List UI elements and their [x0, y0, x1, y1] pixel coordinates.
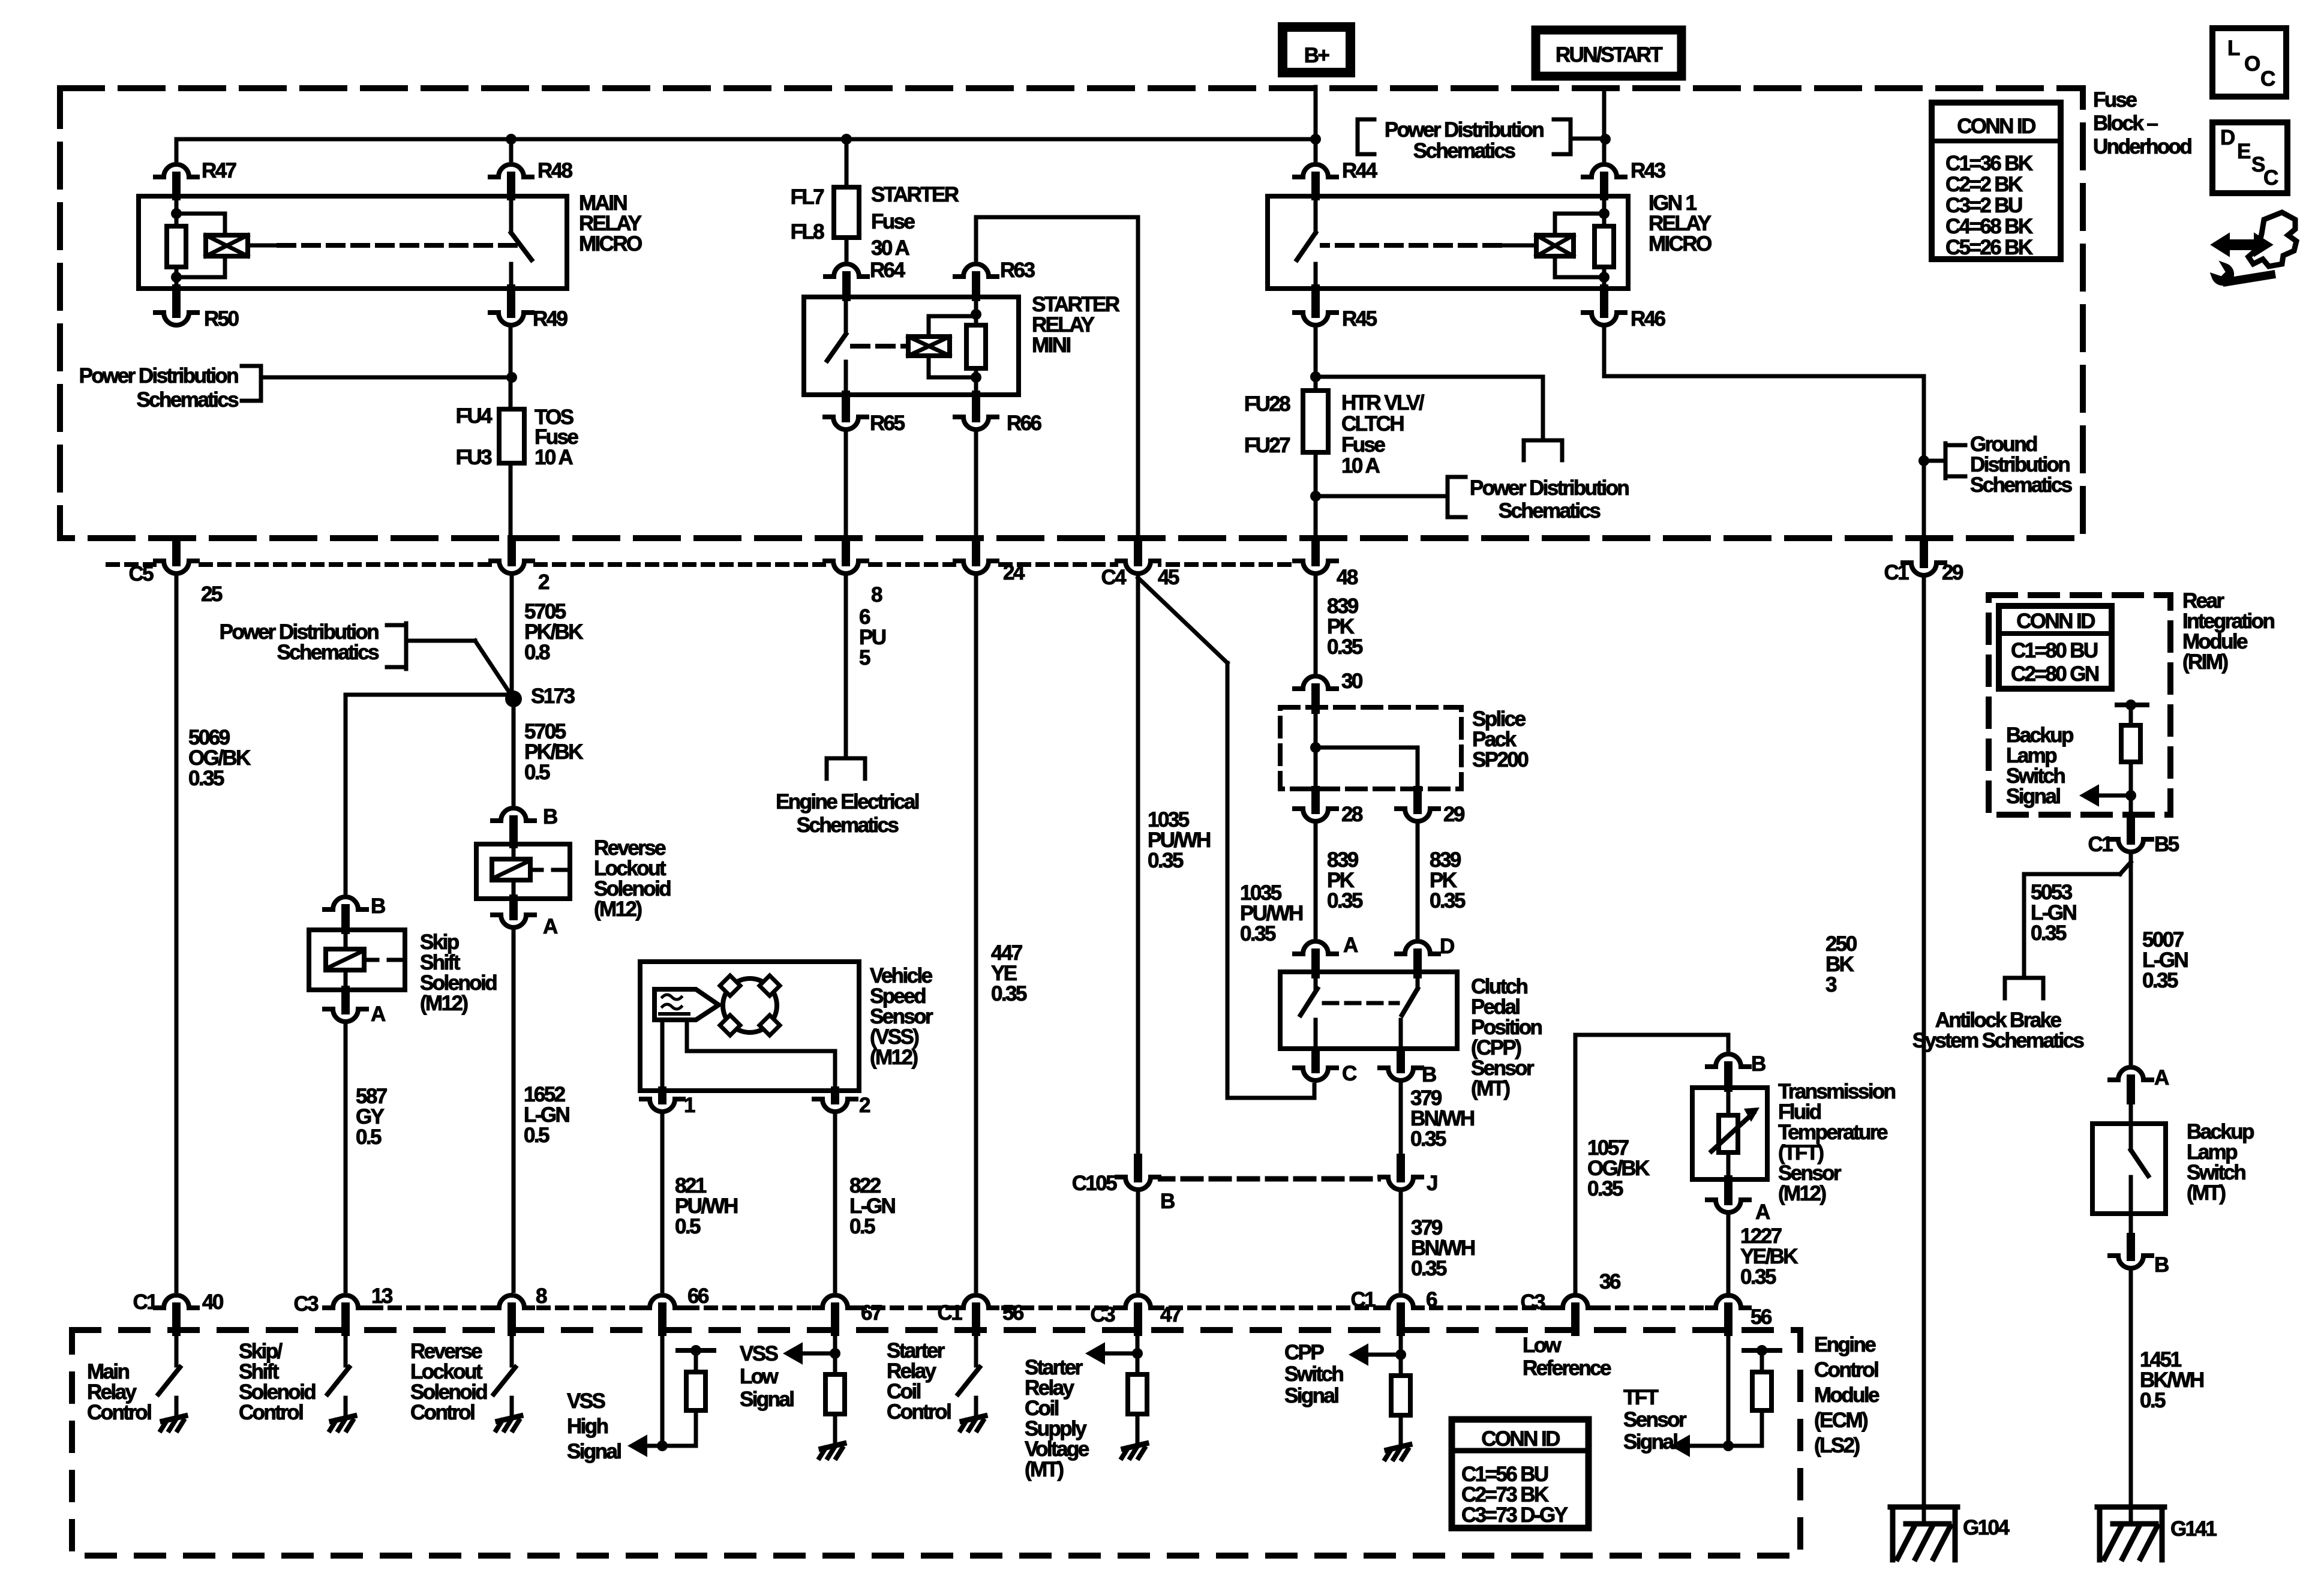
svg-text:6: 6	[1426, 1288, 1437, 1311]
svg-text:0.5: 0.5	[849, 1215, 875, 1238]
svg-text:Schematics: Schematics	[1970, 473, 2073, 497]
svg-text:40: 40	[202, 1290, 224, 1314]
svg-text:48: 48	[1337, 566, 1358, 589]
svg-text:CLTCH: CLTCH	[1341, 412, 1403, 436]
svg-text:0.35: 0.35	[2031, 921, 2067, 945]
svg-text:10 A: 10 A	[535, 446, 574, 469]
svg-text:67: 67	[861, 1301, 882, 1325]
svg-text:C1: C1	[133, 1290, 158, 1314]
svg-text:66: 66	[687, 1284, 709, 1308]
svg-text:8: 8	[536, 1284, 547, 1308]
svg-text:Power Distribution: Power Distribution	[1470, 476, 1629, 500]
svg-text:R45: R45	[1342, 307, 1377, 331]
svg-text:0.35: 0.35	[1430, 889, 1466, 912]
svg-text:R47: R47	[202, 159, 236, 182]
svg-text:R63: R63	[1000, 259, 1035, 282]
svg-text:FU3: FU3	[456, 446, 492, 469]
svg-text:Schematics: Schematics	[136, 388, 239, 412]
svg-text:CPP: CPP	[1284, 1341, 1324, 1364]
svg-text:13: 13	[371, 1284, 393, 1308]
svg-text:Schematics: Schematics	[797, 813, 899, 837]
svg-text:Power Distribution: Power Distribution	[1385, 118, 1544, 142]
svg-text:Control: Control	[887, 1400, 951, 1424]
svg-text:(RIM): (RIM)	[2182, 650, 2227, 674]
svg-text:56: 56	[1002, 1301, 1024, 1325]
svg-text:Signal: Signal	[1284, 1384, 1338, 1407]
svg-text:CONN ID: CONN ID	[1481, 1427, 1560, 1451]
svg-text:TFT: TFT	[1623, 1386, 1659, 1409]
svg-text:R46: R46	[1631, 307, 1666, 331]
svg-text:(M12): (M12)	[420, 992, 467, 1015]
svg-text:30: 30	[1341, 670, 1363, 693]
svg-text:FL7: FL7	[791, 185, 824, 209]
svg-text:R48: R48	[538, 159, 573, 182]
svg-text:SP200: SP200	[1472, 748, 1529, 772]
svg-text:(MT): (MT)	[1025, 1458, 1063, 1481]
svg-text:(ECM): (ECM)	[1814, 1409, 1867, 1432]
svg-text:Control: Control	[239, 1401, 303, 1424]
svg-text:Engine Electrical: Engine Electrical	[776, 790, 919, 813]
svg-text:D: D	[1440, 935, 1454, 958]
svg-text:0.35: 0.35	[1410, 1127, 1446, 1151]
svg-text:Control: Control	[1814, 1358, 1878, 1382]
svg-text:Switch: Switch	[1284, 1362, 1343, 1386]
svg-text:47: 47	[1160, 1303, 1181, 1326]
svg-text:0.35: 0.35	[991, 982, 1027, 1005]
svg-text:10 A: 10 A	[1341, 454, 1380, 478]
svg-text:(LS2): (LS2)	[1814, 1434, 1859, 1457]
svg-text:Fuse: Fuse	[2093, 88, 2137, 112]
svg-text:0.35: 0.35	[188, 767, 224, 790]
svg-text:C3: C3	[293, 1292, 319, 1316]
svg-text:(M12): (M12)	[870, 1046, 917, 1069]
svg-text:0.35: 0.35	[1240, 922, 1276, 945]
svg-text:FU4: FU4	[456, 404, 493, 428]
svg-text:Schematics: Schematics	[277, 641, 379, 664]
svg-text:C3=73 D-GY: C3=73 D-GY	[1461, 1503, 1568, 1527]
svg-text:STARTER: STARTER	[871, 183, 959, 206]
svg-text:C5: C5	[128, 562, 154, 586]
svg-text:Signal: Signal	[1623, 1430, 1677, 1454]
svg-text:C1=80 BU: C1=80 BU	[2011, 639, 2098, 662]
svg-text:0.5: 0.5	[2140, 1389, 2166, 1412]
svg-text:0.35: 0.35	[1327, 889, 1363, 912]
svg-text:R44: R44	[1342, 159, 1378, 182]
svg-text:C1: C1	[2088, 833, 2113, 856]
svg-text:0.35: 0.35	[1411, 1257, 1447, 1280]
svg-text:B: B	[543, 805, 557, 828]
svg-text:C1: C1	[1884, 561, 1909, 584]
svg-text:Signal: Signal	[740, 1388, 794, 1411]
svg-text:G141: G141	[2170, 1517, 2217, 1541]
svg-text:28: 28	[1341, 803, 1363, 826]
svg-text:2: 2	[538, 571, 550, 594]
svg-text:C: C	[1342, 1062, 1357, 1085]
svg-text:(MT): (MT)	[2187, 1181, 2225, 1205]
svg-text:0.5: 0.5	[675, 1215, 701, 1238]
svg-text:S173: S173	[531, 685, 575, 708]
svg-text:36: 36	[1599, 1270, 1621, 1293]
svg-text:A: A	[543, 915, 558, 938]
svg-text:C3: C3	[1520, 1290, 1545, 1314]
svg-text:A: A	[371, 1002, 386, 1026]
svg-text:24: 24	[1003, 561, 1025, 584]
svg-text:B: B	[1422, 1063, 1436, 1086]
svg-text:VSS: VSS	[740, 1342, 777, 1365]
svg-text:CONN ID: CONN ID	[2016, 610, 2095, 633]
svg-text:Power Distribution: Power Distribution	[79, 364, 239, 388]
svg-text:S: S	[2251, 153, 2265, 176]
svg-text:3: 3	[1825, 973, 1837, 996]
svg-text:30 A: 30 A	[871, 236, 910, 260]
svg-text:0.35: 0.35	[2142, 969, 2178, 992]
svg-text:Fuse: Fuse	[1341, 433, 1385, 457]
svg-text:O: O	[2244, 52, 2260, 76]
svg-text:(MT): (MT)	[1471, 1077, 1509, 1100]
svg-text:R49: R49	[533, 307, 568, 331]
svg-text:CONN ID: CONN ID	[1957, 115, 2035, 138]
svg-text:56: 56	[1750, 1305, 1772, 1329]
svg-text:J: J	[1427, 1172, 1437, 1195]
svg-text:B: B	[1160, 1190, 1175, 1213]
svg-text:HTR VLV/: HTR VLV/	[1341, 391, 1425, 415]
svg-text:C3: C3	[1090, 1303, 1115, 1326]
svg-text:0.5: 0.5	[524, 761, 550, 784]
svg-text:G104: G104	[1963, 1516, 2010, 1539]
svg-text:29: 29	[1942, 561, 1963, 584]
svg-text:Low: Low	[740, 1365, 779, 1388]
svg-text:A: A	[2154, 1066, 2169, 1089]
svg-text:C: C	[2263, 166, 2278, 190]
svg-text:R50: R50	[204, 307, 239, 331]
svg-text:A: A	[1343, 933, 1358, 957]
svg-text:E: E	[2237, 140, 2250, 163]
svg-text:Block –: Block –	[2093, 112, 2158, 135]
svg-text:B5: B5	[2154, 833, 2179, 856]
svg-text:R66: R66	[1007, 412, 1042, 435]
svg-text:C1=36 BK: C1=36 BK	[1945, 152, 2033, 175]
svg-text:Sensor: Sensor	[1623, 1408, 1687, 1431]
svg-text:Schematics: Schematics	[1413, 139, 1516, 163]
svg-text:VSS: VSS	[567, 1389, 605, 1413]
svg-text:29: 29	[1443, 803, 1465, 826]
svg-text:FU28: FU28	[1244, 392, 1290, 416]
svg-text:FL8: FL8	[791, 220, 825, 244]
svg-text:C5=26 BK: C5=26 BK	[1945, 236, 2033, 259]
svg-text:R65: R65	[870, 412, 905, 435]
svg-text:MINI: MINI	[1032, 334, 1070, 357]
svg-text:0.35: 0.35	[1740, 1265, 1776, 1289]
svg-text:2: 2	[859, 1094, 870, 1117]
svg-text:Engine: Engine	[1814, 1333, 1876, 1356]
svg-text:C1: C1	[937, 1301, 962, 1325]
svg-text:(M12): (M12)	[1778, 1182, 1825, 1205]
svg-text:A: A	[1755, 1200, 1770, 1224]
svg-text:Control: Control	[87, 1401, 151, 1424]
svg-text:Signal: Signal	[567, 1440, 621, 1463]
svg-text:B: B	[371, 894, 385, 918]
svg-text:R64: R64	[870, 259, 906, 282]
svg-text:45: 45	[1158, 566, 1179, 589]
svg-text:C105: C105	[1072, 1172, 1117, 1195]
svg-text:C2=2 BK: C2=2 BK	[1945, 173, 2023, 196]
svg-text:25: 25	[201, 583, 223, 606]
svg-text:5: 5	[859, 646, 870, 670]
svg-text:Underhood: Underhood	[2093, 135, 2191, 158]
svg-text:R43: R43	[1631, 159, 1666, 182]
svg-text:FU27: FU27	[1244, 434, 1290, 457]
svg-text:B+: B+	[1304, 44, 1330, 67]
svg-text:0.5: 0.5	[524, 1124, 550, 1147]
svg-text:0.35: 0.35	[1148, 849, 1184, 872]
svg-text:0.35: 0.35	[1327, 635, 1363, 659]
svg-text:C4: C4	[1101, 566, 1127, 589]
svg-text:High: High	[567, 1415, 608, 1438]
svg-text:Low: Low	[1523, 1334, 1562, 1357]
svg-text:B: B	[2154, 1253, 2169, 1277]
svg-text:B: B	[1751, 1052, 1765, 1076]
svg-text:MICRO: MICRO	[1649, 232, 1712, 256]
svg-text:0.8: 0.8	[524, 641, 550, 664]
svg-text:L: L	[2227, 37, 2240, 60]
svg-text:Control: Control	[410, 1401, 475, 1424]
svg-text:1: 1	[684, 1094, 695, 1117]
svg-text:C3=2 BU: C3=2 BU	[1945, 194, 2022, 217]
svg-text:0.5: 0.5	[356, 1125, 382, 1149]
svg-text:C4=68 BK: C4=68 BK	[1945, 215, 2033, 238]
svg-text:(M12): (M12)	[594, 897, 641, 921]
svg-text:MICRO: MICRO	[579, 232, 642, 256]
svg-text:C2=80 GN: C2=80 GN	[2011, 662, 2098, 686]
svg-text:Schematics: Schematics	[1499, 499, 1601, 523]
svg-text:Signal: Signal	[2006, 785, 2060, 808]
svg-text:0.35: 0.35	[1587, 1177, 1623, 1200]
svg-text:C: C	[2260, 67, 2275, 91]
svg-text:8: 8	[871, 583, 882, 607]
svg-text:Fuse: Fuse	[871, 210, 915, 233]
svg-text:RUN/START: RUN/START	[1556, 43, 1662, 67]
svg-text:Reference: Reference	[1523, 1356, 1611, 1380]
svg-text:System Schematics: System Schematics	[1912, 1029, 2085, 1052]
svg-text:D: D	[2220, 126, 2235, 149]
svg-text:Module: Module	[1814, 1383, 1879, 1407]
svg-text:C1: C1	[1350, 1288, 1376, 1311]
